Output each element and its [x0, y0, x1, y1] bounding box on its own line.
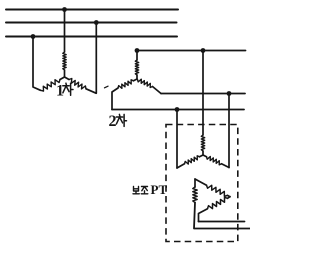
- transformer primary winding P3 (right diagonal zigzag): [69, 79, 86, 89]
- bus line L1 (phase A): [6, 9, 178, 11]
- wire: secondary left arm lead down: [112, 88, 118, 110]
- transformer secondary winding S1 (vertical zigzag): [135, 60, 138, 75]
- junction dot: L2 tap: [94, 20, 99, 25]
- transformer secondary winding S3 (right diagonal zigzag): [138, 79, 153, 87]
- junction dot: secondary top terminal: [135, 48, 140, 53]
- aux PT secondary winding B2 (top side zigzag of open delta): [195, 179, 207, 185]
- wire: secondary terminal a to right: [137, 50, 246, 52]
- value label "2차" (secondary): [109, 113, 127, 130]
- wire: secondary top terminal down to winding: [136, 51, 138, 61]
- value label "1차" (primary): [56, 83, 73, 100]
- wire: tap from terminal b down to aux PT right arm: [228, 94, 230, 168]
- aux PT primary winding A1 (vertical zigzag): [201, 135, 204, 151]
- circuit schematic: GPT with auxiliary PT, scanned figure: [0, 0, 250, 252]
- auxiliary PT enclosure (dashed box): [166, 125, 238, 242]
- aux PT primary winding A3 (right diagonal zigzag): [203, 155, 207, 157]
- wire: tap from terminal c down to aux PT left arm: [176, 110, 178, 169]
- wire: L1 tap down to primary top winding: [64, 10, 66, 53]
- wire: L2 tap down to primary right arm: [86, 23, 96, 94]
- wire: secondary terminal b to right: [161, 93, 245, 95]
- junction dot: L1 tap: [62, 7, 67, 12]
- wire: L3 tap down to primary left arm: [33, 37, 41, 91]
- wire: tap from terminal a down to aux PT winding center: [202, 51, 204, 136]
- junction dot: tap to aux PT right: [227, 91, 232, 96]
- node: primary star point: [64, 76, 66, 78]
- aux PT secondary winding B1 (left side zigzag of open delta): [194, 179, 196, 187]
- transformer secondary winding S2 (left diagonal zigzag): [134, 79, 138, 81]
- bus line L2 (phase B): [6, 22, 177, 24]
- wire: open delta output lead 1: [199, 221, 245, 223]
- aux PT primary winding A2 (left diagonal zigzag): [200, 155, 204, 157]
- wire: secondary right arm lead: [153, 87, 162, 94]
- wire: aux left arm lead: [177, 164, 185, 168]
- wire: secondary terminal c to right: [112, 109, 244, 111]
- value label "보조 PT" (auxiliary PT): [133, 182, 167, 197]
- bus line L3 (phase C): [6, 36, 177, 38]
- aux PT secondary winding B3 (bottom side zigzag of open delta): [228, 197, 231, 199]
- svg-text:PT: PT: [151, 182, 168, 197]
- stray scan tick: [105, 86, 109, 88]
- junction dot: tap to aux PT center: [201, 48, 206, 53]
- svg-text:2: 2: [109, 113, 117, 130]
- wire: aux right arm lead: [222, 164, 230, 168]
- junction dot: L3 tap: [31, 34, 36, 39]
- transformer primary winding P1 (vertical zigzag): [63, 52, 66, 70]
- wire: open delta output lead 2: [194, 203, 250, 229]
- junction dot: tap to aux PT left: [175, 107, 180, 112]
- transformer primary winding P2 (left diagonal zigzag): [41, 80, 61, 92]
